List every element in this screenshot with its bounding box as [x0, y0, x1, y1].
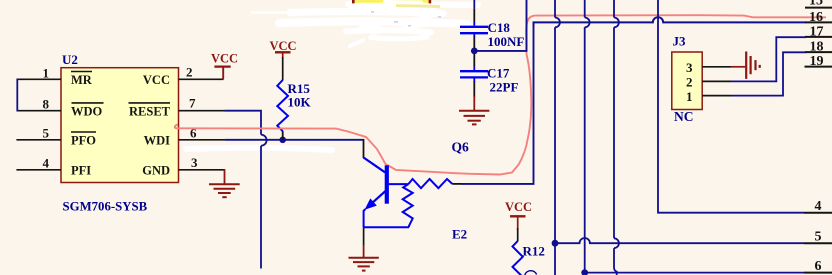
stub 18: [805, 51, 832, 53]
svg-text:3: 3: [686, 60, 693, 75]
junction node C17/C18: [471, 48, 478, 55]
svg-text:J3: J3: [673, 34, 687, 49]
C18 bottom lead: [473, 34, 475, 67]
svg-text:22PF: 22PF: [490, 79, 519, 94]
svg-text:8: 8: [43, 96, 50, 111]
pin 6 WDI wire: [179, 139, 364, 158]
stub 5: [804, 242, 832, 244]
svg-text:E2: E2: [452, 227, 467, 242]
svg-text:3: 3: [191, 155, 198, 170]
svg-text:4: 4: [43, 155, 50, 170]
ground below transistor: [349, 227, 379, 270]
svg-text:5: 5: [43, 125, 50, 140]
C17 bottom lead: [473, 81, 475, 97]
resistor R15: [277, 80, 288, 131]
emitter wire to ground: [364, 209, 366, 227]
capacitor C17: [460, 67, 488, 82]
R12 top lead: [517, 228, 519, 241]
svg-text:19: 19: [810, 54, 824, 69]
svg-text:NC: NC: [674, 109, 694, 124]
stub 4: [804, 212, 832, 214]
line 5 wire: [555, 238, 804, 243]
stub 19: [805, 66, 832, 68]
svg-text:7: 7: [189, 96, 196, 111]
svg-text:Q6: Q6: [452, 140, 470, 155]
line 6 wire: [585, 272, 804, 274]
pin 7 RESET wire (black then navy, corner down at x=261): [179, 111, 262, 135]
svg-text:10K: 10K: [288, 95, 312, 110]
pin 8 wire: [17, 110, 61, 112]
vertical bus wire A (x=556): [555, 0, 560, 275]
transistor Q6 base bar: [385, 165, 389, 203]
pin 5 wire: [16, 139, 61, 141]
svg-text:VCC: VCC: [505, 200, 532, 214]
wire from junction to riser: [474, 0, 526, 51]
ground at pin 3: [209, 169, 240, 197]
junction node bus A / line 5: [552, 240, 559, 247]
junction node bus B / line 6: [581, 269, 588, 275]
IC U2 body: [61, 68, 179, 183]
pin 3 GND wire: [179, 169, 225, 171]
VCC symbol at pin 2: [214, 67, 230, 80]
pin label MR (active low): [71, 72, 93, 88]
pin 1 wire: [17, 78, 61, 80]
svg-text:VCC: VCC: [211, 52, 238, 66]
pin 4 wire: [16, 169, 61, 171]
svg-text:100NF: 100NF: [488, 34, 525, 49]
connector J3 body: [672, 52, 702, 110]
svg-text:C18: C18: [488, 20, 511, 35]
wire hop: RESET vertical over WDI wire: [261, 135, 267, 146]
ground below C17: [459, 96, 489, 124]
svg-text:GND: GND: [142, 164, 170, 178]
pin label PFO (active low): [71, 132, 96, 148]
svg-text:17: 17: [810, 25, 824, 40]
svg-text:18: 18: [810, 40, 824, 55]
chassis/earth symbol at J3 pin 3: [746, 52, 760, 79]
resistor R(base) of E2 (horizontal zigzag): [408, 179, 452, 188]
capacitor C18: [460, 27, 488, 33]
white smudge scribbles (erased area): [252, 4, 478, 46]
svg-text:U2: U2: [62, 52, 78, 67]
transistor Q6 emitter lead with arrow: [365, 198, 377, 209]
highlighted net (red) from WDI to pin 16: [175, 15, 826, 174]
pin 2 wire to VCC: [179, 78, 224, 80]
stub 17: [805, 36, 832, 38]
svg-text:16: 16: [809, 10, 823, 25]
svg-text:PFI: PFI: [71, 164, 91, 178]
svg-text:5: 5: [815, 230, 822, 245]
corner to net 16 horizontal wire: [534, 17, 806, 27]
J3 pin 2 wire to stub 17: [702, 37, 806, 81]
svg-text:C17: C17: [487, 66, 510, 81]
R15 bottom lead wire: [282, 131, 284, 140]
vertical bus wire B (x=584): [585, 0, 590, 275]
svg-text:6: 6: [815, 259, 822, 274]
E2 output wire (black then navy) to vertical riser: [452, 183, 463, 185]
svg-text:2: 2: [686, 74, 693, 89]
svg-text:WDO: WDO: [71, 104, 103, 118]
resistor R12: [513, 241, 523, 275]
capacitor C18 top lead (from top edge): [473, 0, 475, 26]
pin label RESET (active low): [129, 103, 171, 119]
svg-text:4: 4: [815, 199, 822, 214]
svg-text:1: 1: [686, 89, 693, 104]
svg-text:RESET: RESET: [129, 104, 171, 118]
svg-text:MR: MR: [71, 73, 93, 87]
RESET net vertical wire down: [260, 146, 262, 269]
J3 pin 1 wire to stub 18: [702, 52, 806, 95]
vertical bus wire D (x=657.5) to stub 4: [658, 0, 804, 213]
transistor Q6 collector lead: [364, 158, 386, 173]
stub 15: [805, 7, 832, 9]
svg-text:VCC: VCC: [270, 39, 297, 53]
base lead stub: [389, 183, 409, 185]
svg-text:1: 1: [43, 66, 50, 81]
svg-text:2: 2: [186, 65, 193, 80]
VCC symbol above R15: [275, 52, 291, 58]
E2 bottom wire to emitter: [364, 226, 409, 228]
stub 6: [804, 272, 832, 274]
svg-text:VCC: VCC: [143, 73, 170, 87]
svg-text:PFO: PFO: [71, 134, 96, 148]
svg-text:15: 15: [809, 0, 823, 9]
pin label WDO (active low): [71, 103, 104, 119]
resistor R(base-emitter) of E2 (vertical zigzag): [403, 184, 413, 227]
svg-text:R12: R12: [523, 244, 545, 259]
white streak over WDI wire: [186, 148, 332, 150]
junction node R15/WDI: [279, 137, 286, 144]
partial circle of cropped text below R12: [525, 271, 537, 275]
VCC symbol above R12: [510, 216, 526, 230]
vertical bus wire C (x=612): [614, 0, 619, 275]
svg-text:SGM706-SYSB: SGM706-SYSB: [63, 199, 148, 213]
R15 top lead wire: [282, 57, 284, 80]
svg-text:WDI: WDI: [144, 134, 171, 148]
wire bracket pin1-pin8: [16, 79, 18, 112]
stub 16: [805, 21, 832, 23]
yellow strip remnant (top, cropped component): [352, 0, 441, 27]
J3 pin 3 wire: [702, 66, 745, 68]
